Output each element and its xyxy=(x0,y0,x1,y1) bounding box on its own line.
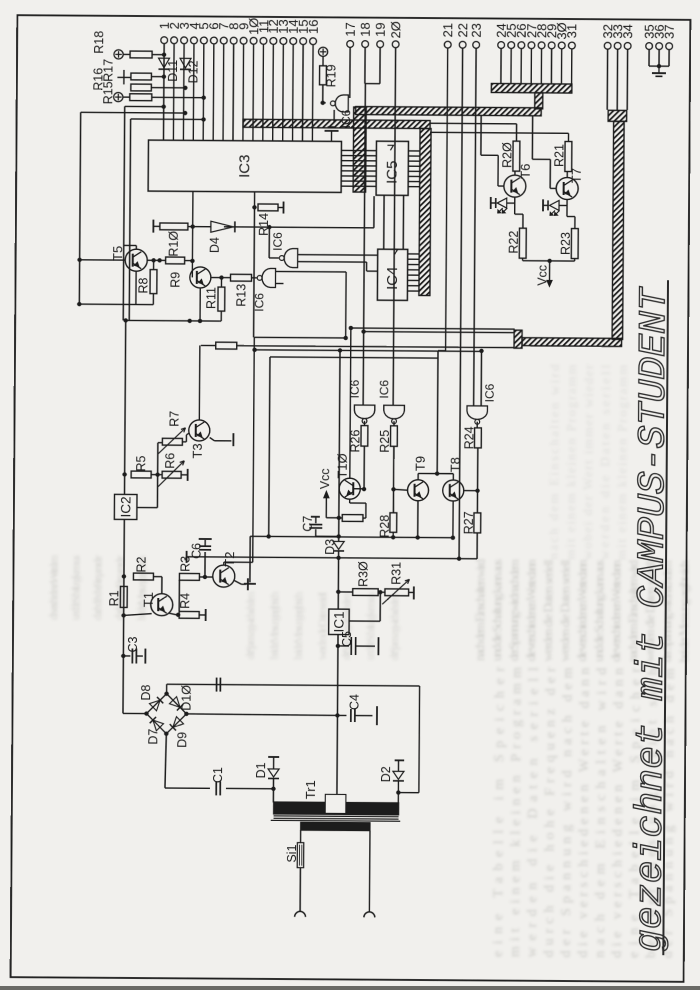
svg-text:D8: D8 xyxy=(139,684,153,700)
svg-text:R7: R7 xyxy=(167,411,181,427)
svg-text:R31: R31 xyxy=(389,562,403,585)
svg-text:Si1: Si1 xyxy=(285,844,299,862)
svg-text:IC6: IC6 xyxy=(252,293,266,312)
svg-text:D1: D1 xyxy=(254,762,268,778)
svg-text:R11: R11 xyxy=(204,287,218,309)
svg-text:IC2: IC2 xyxy=(118,496,133,517)
svg-text:nach dem Einschalten wird: nach dem Einschalten wird xyxy=(472,558,488,661)
svg-text:R9: R9 xyxy=(168,272,182,288)
svg-text:IC6: IC6 xyxy=(483,383,497,402)
svg-text:werden die Daten seriell: werden die Daten seriell xyxy=(597,364,613,559)
svg-text:IC6: IC6 xyxy=(271,232,285,251)
svg-text:R3Ø: R3Ø xyxy=(356,561,370,587)
svg-text:R21: R21 xyxy=(552,144,566,167)
svg-text:die verschiedenen Werte dann: die verschiedenen Werte dann xyxy=(523,559,539,662)
svg-text:R15: R15 xyxy=(101,81,115,104)
svg-text:gezeichnet mit CAMPUS-STUDENT: gezeichnet mit CAMPUS-STUDENT xyxy=(629,286,677,952)
svg-text:R2Ø: R2Ø xyxy=(500,142,514,168)
svg-text:23: 23 xyxy=(469,23,484,38)
svg-text:IC3: IC3 xyxy=(236,155,253,178)
svg-text:werden die Daten seriell: werden die Daten seriell xyxy=(315,591,329,660)
svg-text:D1Ø: D1Ø xyxy=(179,685,193,711)
svg-text:Vcc: Vcc xyxy=(318,468,332,489)
svg-text:D7: D7 xyxy=(146,729,160,745)
svg-text:die verschiedenen Werte dann: die verschiedenen Werte dann xyxy=(608,559,624,662)
svg-text:C3: C3 xyxy=(126,636,140,652)
svg-text:die verschiedenen Werte dann: die verschiedenen Werte dann xyxy=(574,559,590,662)
svg-text:R2: R2 xyxy=(134,556,148,572)
svg-text:R25: R25 xyxy=(378,430,392,453)
svg-text:wobei der Wert immer wieder: wobei der Wert immer wieder xyxy=(580,364,596,560)
svg-text:D2: D2 xyxy=(379,766,393,782)
svg-text:R28: R28 xyxy=(378,515,392,538)
svg-text:T3: T3 xyxy=(190,443,205,458)
svg-text:und die Schaltung kann aus: und die Schaltung kann aus xyxy=(489,559,505,661)
svg-text:R26: R26 xyxy=(348,429,362,452)
svg-text:16: 16 xyxy=(306,19,321,34)
svg-text:D3: D3 xyxy=(323,539,337,555)
svg-text:werden die Daten seriell: werden die Daten seriell xyxy=(557,559,573,661)
svg-text:17: 17 xyxy=(343,22,358,37)
svg-text:mit einem kleinen Programm: mit einem kleinen Programm xyxy=(508,667,525,957)
svg-text:R6: R6 xyxy=(163,453,177,469)
svg-text:nach dem Einschalten wird: nach dem Einschalten wird xyxy=(546,364,562,560)
svg-text:R4: R4 xyxy=(178,593,192,609)
svg-text:31: 31 xyxy=(564,24,579,39)
svg-text:und die Schaltung kann aus: und die Schaltung kann aus xyxy=(363,592,377,660)
svg-text:Tr1: Tr1 xyxy=(303,780,318,799)
svg-text:R24: R24 xyxy=(462,426,476,449)
svg-text:R18: R18 xyxy=(92,31,106,54)
svg-text:R19: R19 xyxy=(324,64,338,87)
svg-text:R27: R27 xyxy=(462,511,476,534)
svg-text:der Spannung wird nach dem: der Spannung wird nach dem xyxy=(243,591,257,660)
svg-text:T1Ø: T1Ø xyxy=(335,453,350,478)
svg-text:bei der Messung ergibt sich: bei der Messung ergibt sich xyxy=(676,560,692,663)
svg-text:der Spannung wird nach dem: der Spannung wird nach dem xyxy=(387,592,401,661)
svg-text:T5: T5 xyxy=(110,246,125,261)
svg-text:37: 37 xyxy=(662,24,677,39)
svg-text:21: 21 xyxy=(440,23,455,38)
svg-text:IC6: IC6 xyxy=(348,379,362,398)
svg-text:34: 34 xyxy=(620,24,635,39)
svg-text:D9: D9 xyxy=(175,732,189,748)
svg-text:IC6: IC6 xyxy=(339,109,353,128)
svg-text:R22: R22 xyxy=(507,231,521,254)
svg-text:IC4: IC4 xyxy=(384,267,401,290)
svg-text:C4: C4 xyxy=(348,694,362,710)
svg-text:C7: C7 xyxy=(301,516,315,532)
svg-text:T1: T1 xyxy=(141,592,156,607)
svg-text:bei der Messung ergibt sich: bei der Messung ergibt sich xyxy=(291,592,305,660)
svg-text:T8: T8 xyxy=(448,457,463,472)
svg-text:18: 18 xyxy=(358,22,373,37)
svg-text:R1Ø: R1Ø xyxy=(167,231,181,257)
svg-text:C1: C1 xyxy=(211,767,225,783)
svg-text:durch die hohe Frequenz der: durch die hohe Frequenz der xyxy=(90,555,104,620)
svg-text:2Ø: 2Ø xyxy=(388,21,403,38)
svg-text:R8: R8 xyxy=(136,277,150,293)
svg-text:der Spannung wird nach dem: der Spannung wird nach dem xyxy=(506,559,522,661)
svg-text:IC5: IC5 xyxy=(384,161,401,184)
svg-text:D4: D4 xyxy=(208,237,222,253)
svg-text:D11: D11 xyxy=(166,60,180,82)
svg-text:R1: R1 xyxy=(107,590,121,606)
svg-text:R5: R5 xyxy=(134,455,148,471)
svg-text:die verschiedenen Werte dann: die verschiedenen Werte dann xyxy=(46,555,60,620)
svg-text:und die Schaltung kann aus: und die Schaltung kann aus xyxy=(591,560,607,662)
svg-text:R23: R23 xyxy=(559,232,573,255)
svg-text:19: 19 xyxy=(373,22,388,37)
svg-text:T9: T9 xyxy=(413,456,428,471)
svg-text:C5: C5 xyxy=(340,631,354,647)
svg-text:bei der Messung ergibt sich: bei der Messung ergibt sich xyxy=(267,591,281,659)
svg-text:werden die Daten seriell: werden die Daten seriell xyxy=(540,559,556,661)
svg-text:R13: R13 xyxy=(234,284,248,307)
svg-text:und die Schaltung kann aus: und die Schaltung kann aus xyxy=(68,555,82,620)
svg-text:IC6: IC6 xyxy=(377,380,391,399)
svg-text:IC1: IC1 xyxy=(331,611,346,632)
